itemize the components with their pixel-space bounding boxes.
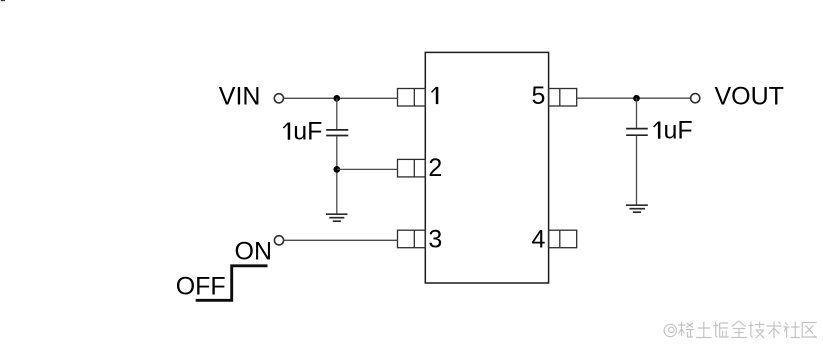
watermark char 金 [731,321,747,338]
watermark char 掘 [713,322,729,338]
pin 4 box [549,230,577,248]
node C1/pin2 junction [333,166,340,173]
capacitor C2 1uF (output) [626,129,648,136]
watermark char 社 [784,322,801,338]
wire C1 bottom to GND node [336,136,338,214]
wire ON/OFF terminal to pin 3 [284,239,398,241]
ground (output side) [626,205,648,212]
pin 2 box [398,159,426,177]
pin 1 box [398,89,426,107]
watermark char 区 [802,323,817,339]
svg-text:VOUT: VOUT [715,83,784,111]
svg-text:VIN: VIN [219,83,261,111]
svg-text:3: 3 [428,225,442,253]
svg-text:5: 5 [532,82,546,110]
terminal ON/OFF input [274,236,283,245]
IC U1 body [425,52,548,283]
wire VIN terminal to pin 1 [284,97,398,99]
wire junction down to C1 [336,98,338,129]
watermark @ [664,324,676,336]
watermark @稀土掘金技术社区 [664,321,817,338]
watermark char 稀 [678,322,694,337]
pin 1 label [432,87,439,104]
watermark char 技 [748,322,764,339]
watermark char 术 [767,322,782,339]
terminal VOUT [691,94,700,103]
svg-text:ON: ON [235,237,273,265]
svg-text:uF: uF [293,118,322,146]
capacitor C1 1uF (input) [326,130,348,136]
svg-text:2: 2 [428,154,442,182]
stray mark top-left [1,0,5,1]
wire pin 5 to VOUT terminal [577,97,690,99]
pin 3 box [398,230,426,248]
node VIN/C1 junction [333,95,340,102]
wire C2 bottom to ground [636,136,638,205]
wire junction to pin 2 [337,168,398,170]
svg-text:OFF: OFF [176,272,226,300]
wire junction down to C2 [636,98,638,128]
node VOUT/C2 junction [633,95,640,102]
svg-text:4: 4 [532,225,546,253]
pin 5 box [549,89,577,107]
ground (input side) [326,214,348,221]
watermark char 土 [696,322,712,338]
terminal VIN [274,94,283,103]
switch waveform step OFF->ON [196,266,268,301]
value label 1uF (output) [654,122,661,139]
svg-text:uF: uF [664,117,693,145]
value label 1uF (input) [283,123,290,140]
